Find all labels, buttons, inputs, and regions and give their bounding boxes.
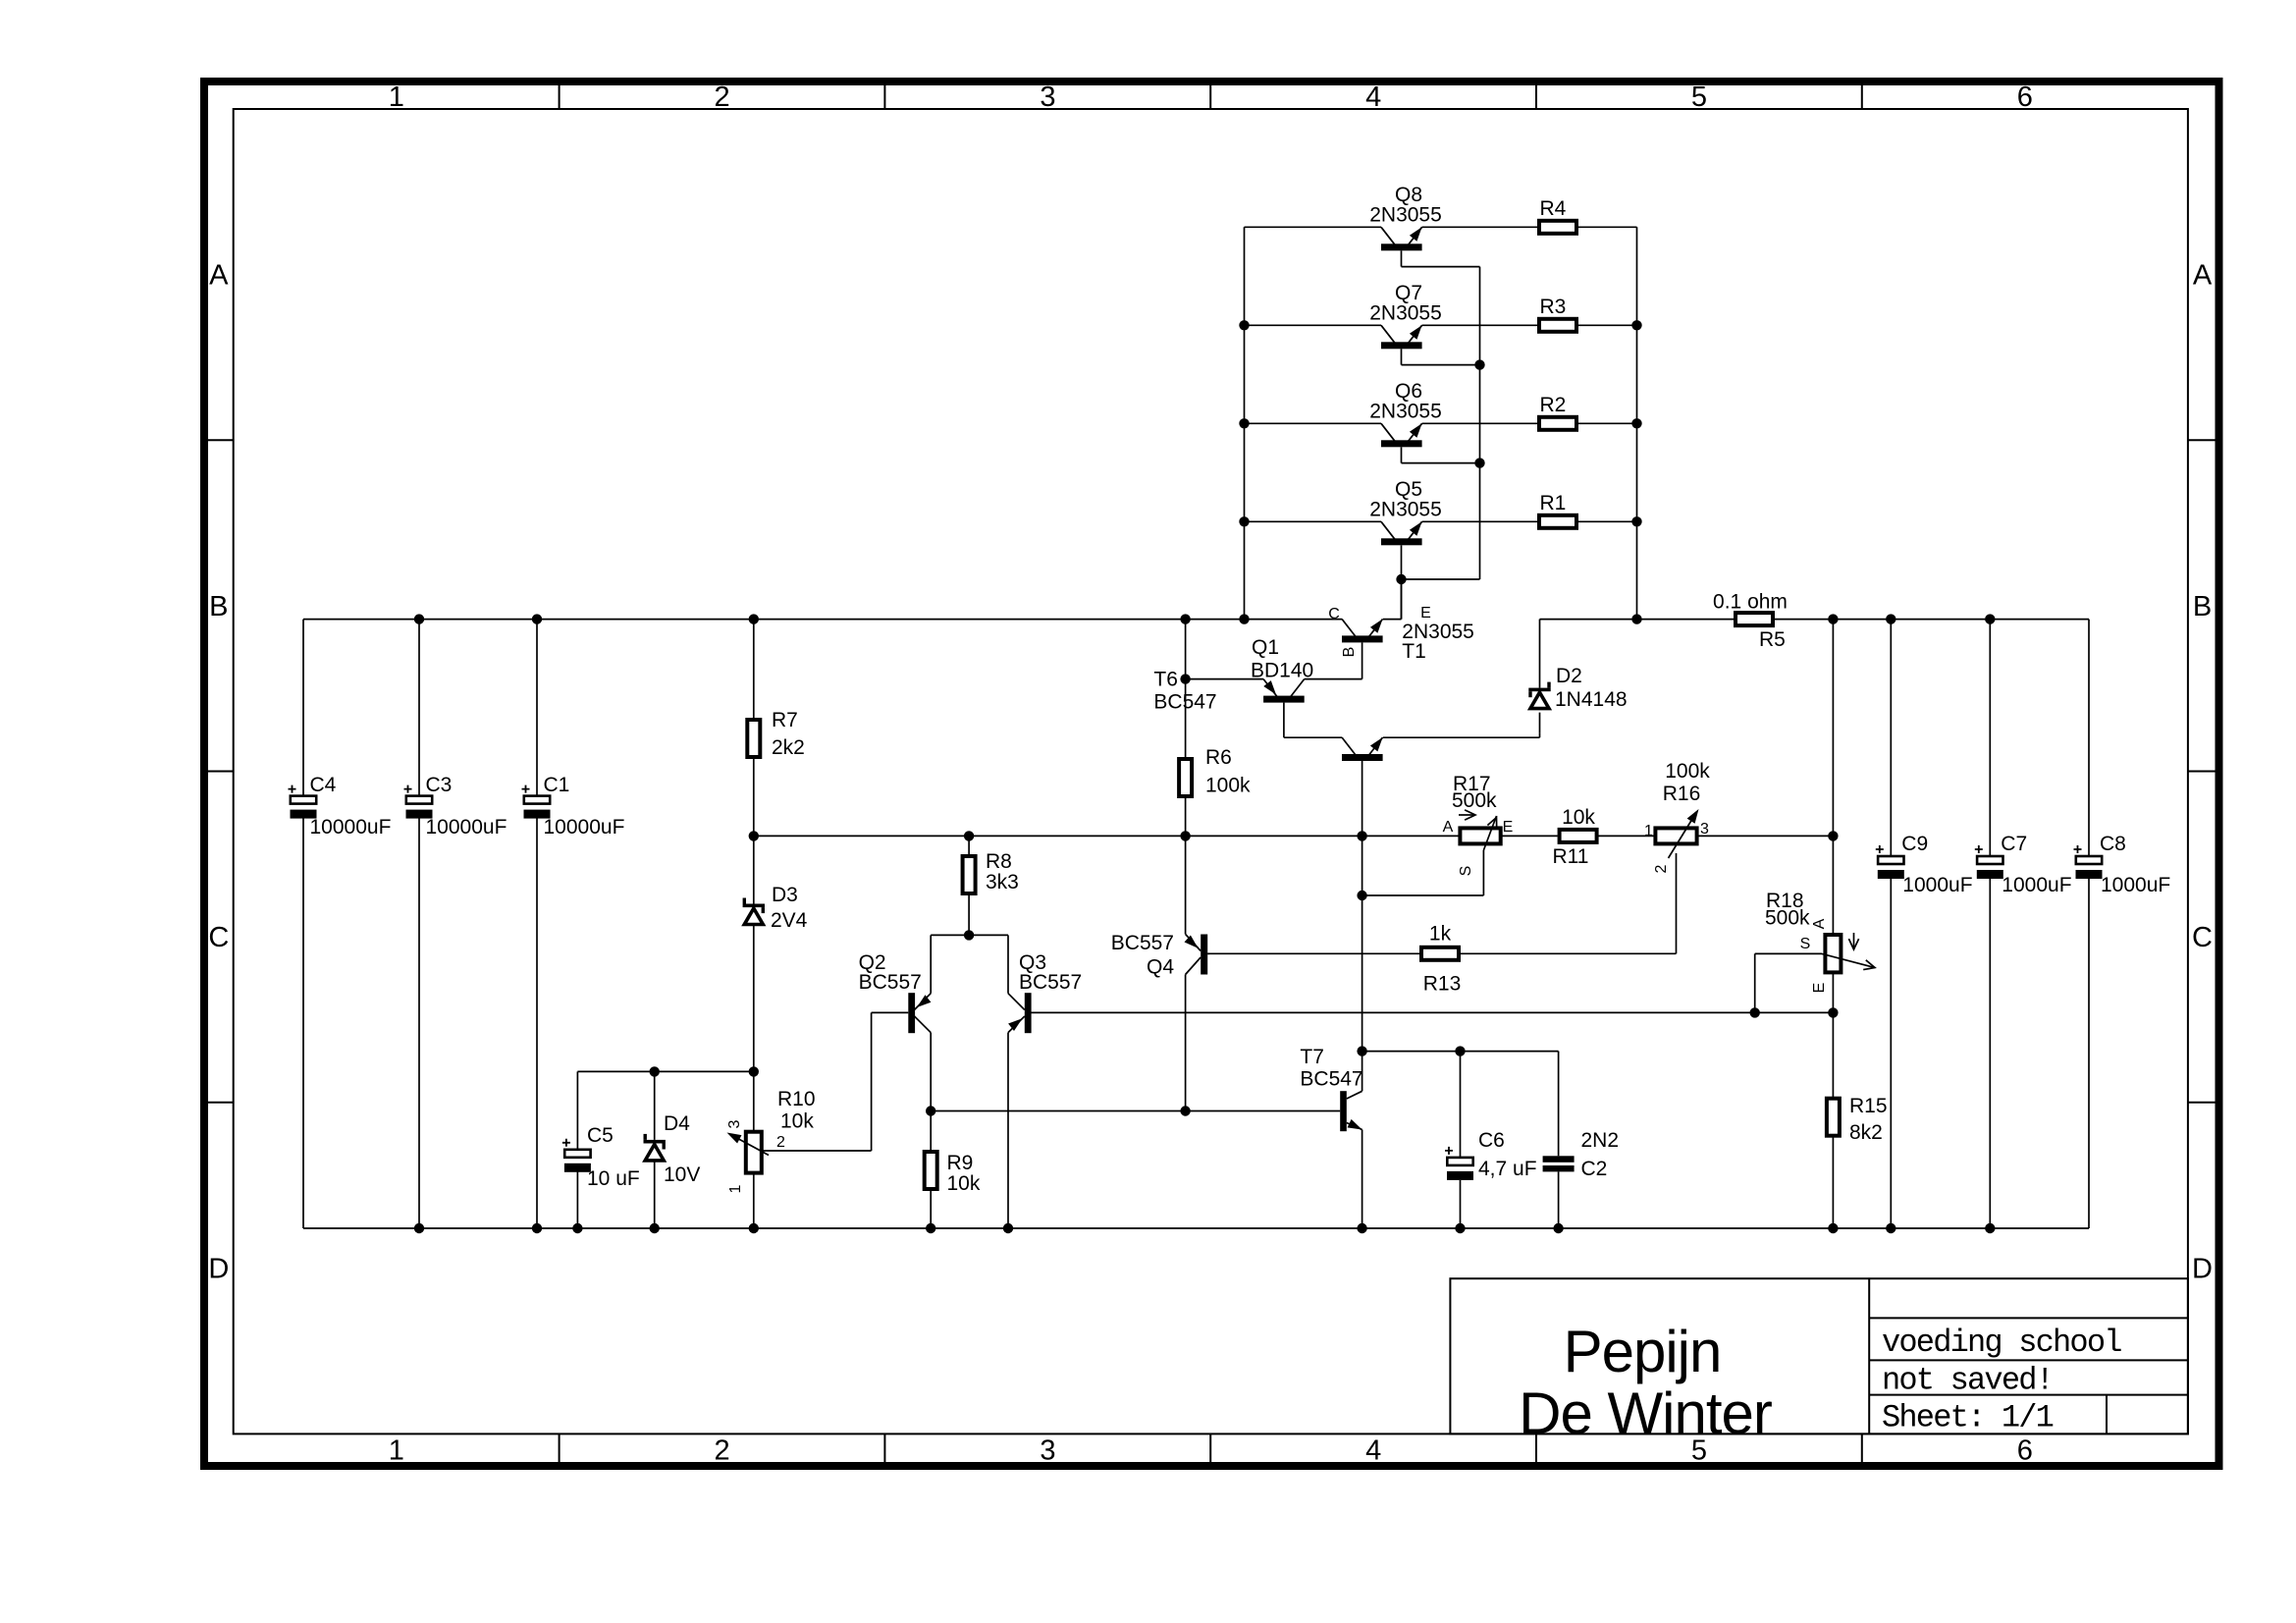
junction	[749, 1066, 759, 1076]
svg-text:100k: 100k	[1205, 775, 1251, 797]
junction	[1180, 674, 1190, 683]
junction	[964, 831, 974, 840]
wire Q3 top riser	[1007, 935, 1009, 993]
resistor R5	[1735, 613, 1773, 625]
svg-text:4: 4	[1365, 81, 1381, 113]
wire array output bus	[1636, 227, 1638, 619]
wire R9 bottom lead	[930, 1189, 932, 1228]
svg-text:T7: T7	[1300, 1046, 1324, 1068]
junction	[1003, 1223, 1013, 1233]
svg-text:R8: R8	[986, 850, 1012, 873]
capacitor C2	[1543, 1156, 1575, 1171]
svg-text:1: 1	[389, 81, 404, 113]
resistor R13	[1421, 947, 1459, 960]
junction	[572, 1223, 582, 1233]
wire R2 to output bus	[1577, 422, 1636, 424]
wire to Q2 base	[872, 1011, 909, 1013]
column tick lines	[208, 85, 2216, 1462]
svg-text:2: 2	[715, 1435, 730, 1467]
wire D4 bottom lead	[654, 1161, 656, 1228]
svg-text:Q4: Q4	[1147, 956, 1174, 979]
wire C4 top lead	[302, 620, 304, 796]
junction	[1180, 831, 1190, 840]
wire array collector bus	[1244, 227, 1246, 619]
junction	[1239, 614, 1249, 623]
svg-text:3k3: 3k3	[986, 871, 1019, 893]
outer border frame	[204, 81, 2219, 1466]
wire R16 wiper riser	[1676, 853, 1678, 953]
wire D3 to R10	[753, 925, 755, 1132]
wire R8 bottom node	[931, 934, 1008, 936]
svg-text:E: E	[1503, 819, 1514, 836]
zener diode D4	[644, 1134, 666, 1161]
wire Q4 collector down	[1185, 975, 1187, 1111]
wire collector stub Q8	[1245, 226, 1382, 228]
svg-text:BD140: BD140	[1251, 660, 1313, 682]
svg-text:4,7 uF: 4,7 uF	[1478, 1158, 1537, 1180]
wire R18 wiper link	[1755, 952, 1822, 954]
svg-text:2N3055: 2N3055	[1369, 498, 1442, 520]
svg-text:1000uF: 1000uF	[1902, 874, 1972, 896]
title block frame	[1450, 1278, 2187, 1434]
svg-text:3: 3	[1040, 81, 1055, 113]
wire Q4 base to R13	[1207, 952, 1419, 954]
svg-text:R10: R10	[777, 1088, 816, 1110]
wire to R6 top	[1185, 679, 1187, 759]
svg-text:2N3055: 2N3055	[1369, 400, 1442, 422]
svg-text:E: E	[1420, 605, 1431, 622]
svg-text:Q1: Q1	[1252, 636, 1279, 659]
svg-text:2N3055: 2N3055	[1369, 301, 1442, 324]
svg-text:1: 1	[389, 1435, 404, 1467]
junction	[1474, 458, 1484, 467]
resistor R6	[1179, 759, 1192, 796]
wire C4 bottom lead	[302, 818, 304, 1228]
junction	[1180, 614, 1190, 623]
svg-text:500k: 500k	[1452, 789, 1497, 812]
svg-text:B: B	[2193, 591, 2212, 622]
junction	[1180, 1106, 1190, 1115]
transistor T7 BC547	[1340, 1091, 1362, 1131]
svg-text:B: B	[1341, 647, 1358, 658]
svg-text:C: C	[1328, 606, 1340, 622]
svg-text:D3: D3	[772, 884, 798, 906]
junction	[414, 614, 424, 623]
junction	[1828, 614, 1838, 623]
junction	[749, 1223, 759, 1233]
junction	[1357, 1223, 1366, 1233]
transistor Q3 BC557	[1008, 993, 1032, 1033]
wire Q2 collector to T7 base	[931, 1110, 1340, 1112]
svg-text:A: A	[209, 260, 229, 292]
resistor R2	[1539, 417, 1576, 430]
wire T1 base lead	[1362, 642, 1363, 678]
wire D2 anode lead2	[1539, 713, 1541, 733]
wire R17 to R11	[1501, 835, 1558, 837]
wire Q5 base to T1 emitter	[1401, 545, 1403, 619]
potentiometer R17	[1443, 810, 1514, 876]
capacitor C4	[289, 785, 317, 819]
svg-text:5: 5	[1691, 81, 1707, 113]
wire collector stub Q7	[1245, 324, 1382, 326]
wire R4 to output bus	[1577, 226, 1636, 228]
wire riser to Q2 base	[871, 1012, 873, 1151]
wire bus R5 to C8	[1775, 619, 2089, 621]
svg-text:BC557: BC557	[1111, 932, 1174, 954]
resistor R1	[1539, 515, 1576, 528]
svg-text:1: 1	[727, 1184, 744, 1193]
wire R1 to output bus	[1577, 520, 1636, 522]
wire emitter to R3	[1422, 324, 1538, 326]
wire Q6 base link	[1402, 462, 1480, 464]
svg-text:4: 4	[1365, 1435, 1381, 1467]
svg-text:10000uF: 10000uF	[544, 816, 625, 839]
wire C3 bottom lead	[418, 818, 420, 1228]
svg-text:1000uF: 1000uF	[2002, 874, 2071, 896]
resistor R8	[963, 856, 976, 893]
svg-text:10000uF: 10000uF	[426, 816, 507, 839]
wire Q7 base stub	[1401, 349, 1403, 364]
resistor R9	[925, 1152, 937, 1189]
junction	[964, 930, 974, 940]
svg-text:6: 6	[2017, 1435, 2033, 1467]
svg-text:not saved!: not saved!	[1882, 1363, 2053, 1399]
junction	[1886, 1223, 1896, 1233]
wire Q2 emitter riser	[930, 935, 932, 993]
wire T1 emitter riser	[1401, 579, 1403, 620]
svg-text:2k2: 2k2	[772, 736, 805, 759]
capacitor C5	[562, 1139, 591, 1172]
svg-text:BC557: BC557	[1019, 971, 1082, 994]
svg-text:R6: R6	[1205, 746, 1232, 769]
wire node R7-D3 to R17	[754, 835, 1461, 837]
wire main bus B left segment	[303, 619, 1342, 621]
svg-text:10 uF: 10 uF	[587, 1167, 640, 1190]
transistor T1 2N3055	[1328, 605, 1431, 657]
wire C2 top lead	[1558, 1052, 1560, 1157]
wire R10 wiper to riser	[763, 1150, 872, 1152]
svg-text:2: 2	[1653, 864, 1670, 873]
svg-text:S: S	[1458, 866, 1474, 877]
svg-text:C1: C1	[544, 774, 570, 796]
svg-text:S: S	[1800, 936, 1811, 952]
wire R10 bottom lead	[753, 1173, 755, 1228]
wire C1 bottom lead	[536, 818, 538, 1228]
wire R17 wiper riser	[1482, 850, 1484, 895]
transistor Q2 BC557	[908, 993, 931, 1033]
svg-text:2V4: 2V4	[771, 909, 808, 932]
wire bus to Q1 emitter node	[1185, 620, 1187, 679]
resistor R11	[1560, 830, 1597, 842]
wire emitter to R4	[1422, 226, 1538, 228]
svg-text:0.1 ohm: 0.1 ohm	[1713, 591, 1788, 614]
resistor R15	[1827, 1099, 1840, 1136]
wire bottom bus	[303, 1227, 2089, 1229]
wire D2 cathode lead	[1539, 620, 1541, 688]
wire Q5 base link	[1402, 578, 1480, 580]
wire R13 to R16 wiper	[1461, 952, 1677, 954]
svg-text:R9: R9	[947, 1152, 974, 1174]
svg-text:C7: C7	[2001, 833, 2027, 855]
svg-text:voeding school: voeding school	[1882, 1325, 2121, 1361]
svg-text:BC547: BC547	[1153, 691, 1216, 714]
svg-text:R2: R2	[1540, 394, 1567, 416]
wire R7 to D3	[753, 757, 755, 904]
junction	[1474, 359, 1484, 369]
junction	[1239, 516, 1249, 526]
wire R7 top lead	[753, 620, 755, 720]
svg-text:8k2: 8k2	[1849, 1121, 1883, 1144]
svg-text:1k: 1k	[1429, 923, 1452, 946]
wire R16 to R18 branch	[1697, 835, 1834, 837]
svg-text:T1: T1	[1402, 640, 1426, 663]
svg-text:C5: C5	[587, 1124, 614, 1147]
junction	[926, 1106, 935, 1115]
svg-text:1000uF: 1000uF	[2101, 874, 2170, 896]
junction	[1357, 1046, 1366, 1055]
svg-text:2N3055: 2N3055	[1369, 203, 1442, 226]
junction	[1357, 891, 1366, 900]
junction	[1985, 614, 1995, 623]
junction	[1750, 1007, 1760, 1017]
potentiometer R16	[1644, 809, 1709, 873]
svg-text:C: C	[208, 922, 229, 953]
svg-text:A: A	[1443, 819, 1454, 836]
transistor Q5 2N3055	[1381, 521, 1422, 545]
wire R6 to Q4 emitter	[1185, 796, 1187, 934]
svg-text:T6: T6	[1153, 669, 1178, 691]
svg-text:A: A	[2193, 260, 2213, 292]
junction	[1828, 831, 1838, 840]
wire collector stub Q6	[1245, 422, 1382, 424]
svg-text:De Winter: De Winter	[1519, 1380, 1772, 1446]
svg-text:C: C	[2192, 922, 2213, 953]
wire Q1 emitter lead	[1186, 678, 1264, 680]
capacitor C7	[1975, 845, 2003, 879]
junction	[1828, 1223, 1838, 1233]
junction	[650, 1066, 660, 1076]
svg-text:R4: R4	[1540, 197, 1567, 220]
junction	[414, 1223, 424, 1233]
wire cap bottom lead x2027.3	[1989, 879, 1991, 1228]
svg-text:C9: C9	[1901, 833, 1928, 855]
wire cap bottom lead x2128	[2088, 879, 2090, 1228]
wire Q6 base stub	[1401, 447, 1403, 462]
svg-text:E: E	[1811, 983, 1828, 994]
wire array base bus	[1479, 267, 1481, 579]
wire R11 to R16	[1599, 835, 1656, 837]
svg-text:R3: R3	[1540, 296, 1567, 318]
wire T6 base down to T7 collector	[1362, 761, 1363, 1091]
capacitor C9	[1876, 845, 1904, 879]
svg-text:D4: D4	[664, 1112, 690, 1135]
svg-text:2N2: 2N2	[1581, 1129, 1620, 1152]
potentiometer R10	[726, 1119, 785, 1193]
wire D2 anode lead	[1539, 732, 1541, 737]
wire R8 top lead	[968, 836, 970, 856]
svg-text:2: 2	[776, 1134, 785, 1151]
capacitor C3	[404, 785, 433, 819]
wire C5 bottom lead	[576, 1172, 578, 1229]
wire C5 top lead	[576, 1071, 578, 1149]
junction	[1455, 1046, 1465, 1055]
svg-text:3: 3	[1700, 821, 1709, 838]
capacitor C1	[522, 785, 551, 819]
wire D4 top lead	[654, 1071, 656, 1140]
svg-text:D: D	[208, 1253, 229, 1284]
title author name	[1519, 1319, 1772, 1446]
resistor R7	[747, 720, 760, 757]
junction	[749, 614, 759, 623]
svg-text:C2: C2	[1581, 1158, 1608, 1180]
wire C2 bottom lead	[1558, 1171, 1560, 1228]
svg-text:D: D	[2192, 1253, 2213, 1284]
transistor Q4 BC557	[1185, 934, 1210, 974]
svg-text:1: 1	[1644, 823, 1653, 839]
wire cap top lead x2128	[2088, 620, 2090, 856]
svg-text:3: 3	[1040, 1435, 1055, 1467]
svg-text:6: 6	[2017, 81, 2033, 113]
wire C1 top lead	[536, 620, 538, 796]
wire R3 to output bus	[1577, 324, 1636, 326]
junction	[532, 614, 542, 623]
junction	[650, 1223, 660, 1233]
wire T7 emitter to bottom bus	[1362, 1130, 1363, 1229]
junction	[1631, 516, 1641, 526]
wire Q1 base lead	[1283, 703, 1285, 738]
junction	[1396, 574, 1406, 584]
junction	[1631, 320, 1641, 330]
junction	[1455, 1223, 1465, 1233]
svg-text:10000uF: 10000uF	[310, 816, 392, 839]
svg-text:Sheet: 1/1: Sheet: 1/1	[1882, 1400, 2054, 1436]
svg-text:D2: D2	[1556, 665, 1582, 687]
svg-text:R5: R5	[1759, 628, 1786, 651]
svg-text:Pepijn: Pepijn	[1564, 1319, 1722, 1384]
wire bus to R18	[1832, 620, 1834, 935]
wire C3 top lead	[418, 620, 420, 796]
junction	[1553, 1223, 1563, 1233]
wire Q2 collector to R9	[930, 1033, 932, 1152]
wire emitter to R2	[1422, 422, 1538, 424]
wire Q7 base link	[1402, 364, 1480, 366]
capacitor C8	[2074, 845, 2103, 879]
inner border frame	[234, 109, 2188, 1434]
potentiometer R18	[1800, 918, 1875, 993]
svg-text:C4: C4	[310, 774, 337, 796]
svg-text:C3: C3	[426, 774, 453, 796]
wire Q1 collector to T1 base	[1305, 678, 1362, 680]
wire Q8 base stub	[1401, 250, 1403, 266]
svg-text:R16: R16	[1663, 783, 1701, 805]
wire bus D2 to R5	[1540, 619, 1735, 621]
svg-text:10k: 10k	[947, 1172, 981, 1195]
junction	[1828, 1007, 1838, 1017]
svg-text:500k: 500k	[1765, 907, 1810, 930]
wire R18 wiper riser	[1754, 953, 1756, 1012]
wire T1 emitter jog	[1383, 619, 1402, 621]
wire Q3 emitter to bottom bus	[1007, 1033, 1009, 1228]
capacitor C6	[1445, 1147, 1473, 1180]
junction	[1631, 418, 1641, 428]
svg-text:100k: 100k	[1665, 760, 1710, 783]
svg-text:10V: 10V	[664, 1163, 700, 1186]
transistor Q7 2N3055	[1381, 325, 1422, 349]
transistor Q1 BD140	[1263, 679, 1305, 703]
svg-text:R11: R11	[1553, 845, 1589, 868]
wire cap top lead x2027.3	[1989, 620, 1991, 856]
wire cap bottom lead x1926.3	[1890, 879, 1892, 1228]
svg-text:R7: R7	[772, 709, 798, 731]
wire C6 bottom lead	[1460, 1180, 1462, 1228]
wire Q8 base link	[1402, 266, 1480, 268]
svg-text:BC557: BC557	[859, 971, 922, 994]
svg-text:R13: R13	[1423, 973, 1462, 996]
wire R8 bottom lead	[968, 893, 970, 935]
diode D2	[1528, 682, 1550, 709]
svg-text:R1: R1	[1540, 492, 1567, 514]
junction	[532, 1223, 542, 1233]
wire C6 top lead	[1460, 1052, 1462, 1158]
junction	[1886, 614, 1896, 623]
svg-text:A: A	[1811, 918, 1828, 929]
wire T7 collector node	[1362, 1051, 1559, 1053]
svg-text:2: 2	[715, 81, 730, 113]
svg-text:C6: C6	[1478, 1129, 1505, 1152]
transistor T6 BC547	[1342, 737, 1383, 761]
resistor R3	[1539, 319, 1576, 332]
wire Q3 base to R18 node	[1032, 1011, 1834, 1013]
wire Q1 base to T6 collector	[1284, 736, 1342, 738]
svg-text:BC547: BC547	[1300, 1068, 1362, 1091]
wire R17 wiper return	[1362, 894, 1484, 896]
zener diode D3	[743, 898, 765, 925]
transistor Q6 2N3055	[1381, 423, 1422, 447]
svg-text:C8: C8	[2100, 833, 2126, 855]
wire R18 to R15	[1832, 972, 1834, 1098]
svg-text:3: 3	[726, 1119, 743, 1128]
junction	[1357, 831, 1366, 840]
svg-text:R15: R15	[1849, 1095, 1888, 1117]
wire R15 to bottom bus	[1832, 1136, 1834, 1228]
svg-text:1N4148: 1N4148	[1555, 688, 1628, 711]
junction	[749, 831, 759, 840]
junction	[1985, 1223, 1995, 1233]
svg-text:B: B	[209, 591, 228, 622]
resistor R4	[1539, 221, 1576, 234]
wire emitter to R1	[1422, 520, 1538, 522]
transistor Q8 2N3055	[1381, 227, 1422, 250]
wire T6 emitter to D2	[1383, 736, 1540, 738]
wire collector stub Q5	[1245, 520, 1382, 522]
svg-text:10k: 10k	[1562, 806, 1595, 829]
junction	[1239, 320, 1249, 330]
svg-text:10k: 10k	[780, 1110, 814, 1133]
wire C5-D4-R10 node	[577, 1070, 753, 1072]
wire cap top lead x1926.3	[1890, 620, 1892, 856]
junction	[1631, 614, 1641, 623]
junction	[926, 1223, 935, 1233]
junction	[1239, 418, 1249, 428]
